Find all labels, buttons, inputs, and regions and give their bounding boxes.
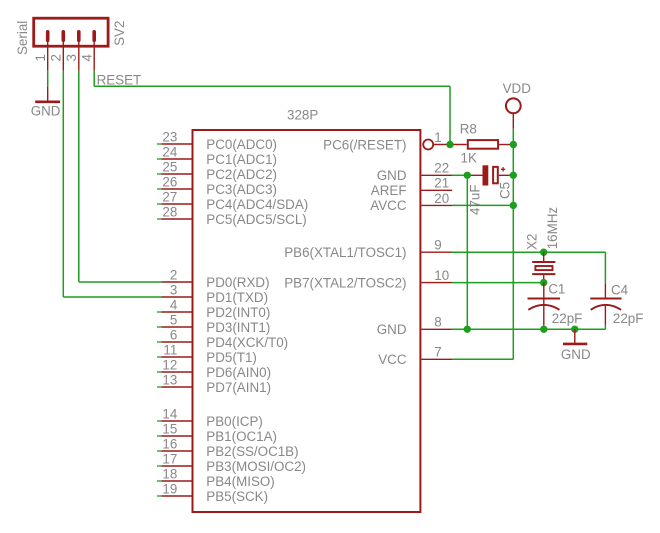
wire net SV2 pin2 to PD1(TXD): vertical xyxy=(62,71,64,297)
SV2 pin 2 contact xyxy=(61,32,65,40)
U1 pin number 6 xyxy=(170,327,177,342)
junction C1 bottom xyxy=(540,326,547,333)
U1 pin number 24 xyxy=(162,144,177,159)
U1 pin label PC3(ADC3) xyxy=(206,182,277,197)
wire net SV2 pin3 to PD0(RXD): horizontal xyxy=(79,281,162,283)
RESET net label xyxy=(97,72,142,87)
U1 pin label PB1(OC1A) xyxy=(206,429,277,444)
U1 pin number 21 xyxy=(434,176,449,191)
svg-text:4: 4 xyxy=(79,54,94,62)
C4 value 22pF xyxy=(613,311,644,326)
U1 pin 27 stub (PC4(ADC4/SDA)) xyxy=(157,203,192,205)
U1 pin number 22 xyxy=(434,161,449,176)
svg-text:22pF: 22pF xyxy=(613,311,644,326)
U1 pin label PD6(AIN0) xyxy=(206,365,271,380)
svg-text:AREF: AREF xyxy=(371,183,407,198)
ground symbol below SV2 (pin stub) xyxy=(35,87,60,102)
U1 pin 21 stub (AREF) xyxy=(421,189,452,191)
svg-text:3: 3 xyxy=(64,54,79,61)
junction XTAL1 node xyxy=(540,249,547,256)
svg-text:AVCC: AVCC xyxy=(370,198,407,213)
U1 pin 2 stub (PD0(RXD)) xyxy=(161,281,191,283)
wire net SV2 pin2 to PD1(TXD): horizontal xyxy=(63,296,161,298)
C5 plus sign xyxy=(501,167,505,171)
U1 pin label PD1(TXD) xyxy=(206,290,268,305)
U1 pin number 20 xyxy=(434,191,449,206)
U1 pin label AREF xyxy=(371,183,407,198)
U1 pin label PB6(XTAL1/TOSC1) xyxy=(284,245,406,260)
svg-text:328P: 328P xyxy=(287,108,318,123)
R8 value 1K xyxy=(461,151,477,166)
svg-text:6: 6 xyxy=(170,327,177,342)
SV2 pin 3 stub xyxy=(78,40,80,71)
svg-text:1K: 1K xyxy=(461,151,477,166)
svg-text:VDD: VDD xyxy=(503,81,532,96)
IC U1 name 328P xyxy=(287,108,318,123)
U1 pin number 23 xyxy=(162,129,177,144)
svg-text:16: 16 xyxy=(162,436,177,451)
svg-text:18: 18 xyxy=(162,466,177,481)
U1 pin label PD2(INT0) xyxy=(206,305,270,320)
svg-text:GND: GND xyxy=(377,322,407,337)
U1 pin 5 stub (PD3(INT1)) xyxy=(157,326,192,328)
U1 pin label PB0(ICP) xyxy=(206,414,263,429)
svg-text:2: 2 xyxy=(170,267,177,282)
svg-text:PB4(MISO): PB4(MISO) xyxy=(206,474,274,489)
U1 pin number 11 xyxy=(163,342,177,357)
svg-text:22pF: 22pF xyxy=(552,311,583,326)
svg-text:23: 23 xyxy=(162,129,177,144)
wire RESET net horizontal xyxy=(94,85,450,87)
U1 pin number 7 xyxy=(434,345,441,360)
svg-text:13: 13 xyxy=(162,372,177,387)
U1 pin number 26 xyxy=(162,174,177,189)
wire from U1 pin 7 xyxy=(452,358,513,360)
U1 pin number 25 xyxy=(162,159,177,174)
U1 pin 8 stub (GND) xyxy=(421,328,452,330)
svg-text:GND: GND xyxy=(31,104,61,119)
svg-text:25: 25 xyxy=(162,159,177,174)
U1 pin label PC5(ADC5/SCL) xyxy=(206,212,306,227)
U1 pin 28 stub (PC5(ADC5/SCL)) xyxy=(157,218,192,220)
svg-text:17: 17 xyxy=(162,451,177,466)
X2 value 16MHz xyxy=(545,207,560,250)
GND label (left) xyxy=(31,104,61,119)
U1 pin 24 stub (PC1(ADC1)) xyxy=(157,158,192,160)
wire C4 branch vertical top xyxy=(604,252,606,284)
U1 pin label GND xyxy=(377,168,407,183)
SV2 pin 1 contact xyxy=(46,32,50,40)
svg-text:PD5(T1): PD5(T1) xyxy=(206,350,257,365)
U1 pin 23 stub (PC0(ADC0)) xyxy=(157,143,192,145)
SV2 name xyxy=(112,21,127,46)
svg-text:12: 12 xyxy=(162,357,177,372)
U1 pin label PB7(XTAL2/TOSC2) xyxy=(284,275,406,290)
wire VDD net vertical (C5 to AVCC) xyxy=(512,175,514,205)
U1 pin 10 stub (PB7(XTAL2/TOSC2)) xyxy=(421,282,452,284)
U1 pin number 14 xyxy=(162,406,177,421)
svg-text:1: 1 xyxy=(33,54,48,61)
svg-text:PC4(ADC4/SDA): PC4(ADC4/SDA) xyxy=(206,197,308,212)
SV2 pin 3 contact xyxy=(77,32,81,40)
U1 pin label PC2(ADC2) xyxy=(206,167,277,182)
svg-text:7: 7 xyxy=(434,345,441,360)
svg-text:28: 28 xyxy=(162,204,177,219)
junction GND/C5 left xyxy=(464,172,471,179)
capacitor C4 xyxy=(590,284,621,325)
U1 pin 15 stub (PB1(OC1A)) xyxy=(157,435,192,437)
svg-text:PB5(SCK): PB5(SCK) xyxy=(206,489,268,504)
junction AVCC/VDD xyxy=(510,202,517,209)
U1 pin 7 stub (VCC) xyxy=(421,358,452,360)
U1 pin label PC1(ADC1) xyxy=(206,152,277,167)
svg-text:8: 8 xyxy=(434,315,441,330)
svg-text:PB2(SS/OC1B): PB2(SS/OC1B) xyxy=(206,444,298,459)
junction pin1/R8/RESET xyxy=(446,141,453,148)
svg-text:5: 5 xyxy=(170,312,177,327)
U1 pin label PC0(ADC0) xyxy=(206,137,277,152)
U1 pin label PD7(AIN1) xyxy=(206,380,271,395)
U1 pin 20 stub (AVCC) xyxy=(421,204,452,206)
wire VDD net horizontal to pin 7 xyxy=(452,358,513,360)
svg-text:10: 10 xyxy=(434,268,449,283)
IC U1 328P body xyxy=(193,130,421,512)
svg-text:1: 1 xyxy=(434,130,441,145)
svg-text:PC3(ADC3): PC3(ADC3) xyxy=(206,182,277,197)
svg-text:PC6(/RESET): PC6(/RESET) xyxy=(323,137,406,152)
svg-text:PC0(ADC0): PC0(ADC0) xyxy=(206,137,277,152)
wire GND net from SV2 pin 1 xyxy=(47,71,49,87)
SV2 pin 4 contact xyxy=(92,32,96,40)
wire VDD net vertical (R8 to C5) xyxy=(512,145,514,176)
R8 name xyxy=(460,122,477,137)
U1 pin number 10 xyxy=(434,268,449,283)
svg-text:PD2(INT0): PD2(INT0) xyxy=(206,305,270,320)
svg-text:19: 19 xyxy=(162,481,177,496)
U1 pin label PC6(/RESET) xyxy=(323,137,406,152)
U1 pin label PC4(ADC4/SDA) xyxy=(206,197,308,212)
SV2 pin number 2 xyxy=(48,54,63,61)
svg-text:2: 2 xyxy=(48,54,63,61)
C5 value 47uF xyxy=(467,184,482,215)
U1 pin number 28 xyxy=(162,204,177,219)
U1 pin 12 stub (PD6(AIN0)) xyxy=(157,371,192,373)
U1 pin label PD4(XCK/T0) xyxy=(206,335,288,350)
U1 pin number 27 xyxy=(162,189,177,204)
svg-text:24: 24 xyxy=(162,144,177,159)
svg-text:GND: GND xyxy=(561,347,591,362)
wire RESET net vertical to pin 1 xyxy=(449,86,451,144)
U1 pin number 9 xyxy=(434,238,441,253)
svg-text:PD6(AIN0): PD6(AIN0) xyxy=(206,365,271,380)
svg-text:16MHz: 16MHz xyxy=(545,207,560,250)
SV2 pin number 1 xyxy=(33,54,48,61)
svg-text:PB1(OC1A): PB1(OC1A) xyxy=(206,429,277,444)
svg-text:PD1(TXD): PD1(TXD) xyxy=(206,290,268,305)
svg-text:PD4(XCK/T0): PD4(XCK/T0) xyxy=(206,335,288,350)
U1 pin number 2 xyxy=(170,267,177,282)
wire C4 bottom vertical xyxy=(604,325,606,330)
svg-text:47uF: 47uF xyxy=(467,184,482,215)
svg-text:PC2(ADC2): PC2(ADC2) xyxy=(206,167,277,182)
C5 name xyxy=(498,182,513,199)
SV2 pin 2 stub xyxy=(62,40,64,71)
SV2 pin number 4 xyxy=(79,54,94,62)
U1 pin number 3 xyxy=(170,282,177,297)
svg-text:PB3(MOSI/OC2): PB3(MOSI/OC2) xyxy=(206,459,306,474)
svg-text:GND: GND xyxy=(377,168,407,183)
U1 pin 22 stub (GND) xyxy=(421,174,452,176)
wire GND net vertical (C5 to pin8) xyxy=(466,175,468,329)
svg-text:PC5(ADC5/SCL): PC5(ADC5/SCL) xyxy=(206,212,306,227)
GND label (bottom right) xyxy=(561,347,591,362)
wire from U1 pin 10 xyxy=(452,282,544,284)
U1 pin 19 stub (PB5(SCK)) xyxy=(157,495,192,497)
svg-text:PD0(RXD): PD0(RXD) xyxy=(206,275,269,290)
capacitor C1 xyxy=(528,283,561,325)
U1 pin 16 stub (PB2(SS/OC1B)) xyxy=(157,450,192,452)
C1 name xyxy=(548,282,565,297)
U1 pin 25 stub (PC2(ADC2)) xyxy=(157,173,192,175)
U1 pin number 15 xyxy=(162,421,177,436)
U1 pin 17 stub (PB3(MOSI/OC2)) xyxy=(157,465,192,467)
wire net SV2 pin3 to PD0(RXD): vertical xyxy=(78,71,80,282)
SV2 pin 4 stub xyxy=(93,40,95,71)
svg-text:9: 9 xyxy=(434,238,441,253)
U1 pin label PB3(MOSI/OC2) xyxy=(206,459,306,474)
svg-text:3: 3 xyxy=(170,282,177,297)
svg-text:C1: C1 xyxy=(548,282,565,297)
svg-text:14: 14 xyxy=(162,406,177,421)
U1 pin 3 stub (PD1(TXD)) xyxy=(161,296,191,298)
svg-text:Serial: Serial xyxy=(15,21,30,55)
U1 pin label PD3(INT1) xyxy=(206,320,270,335)
resistor R8 body xyxy=(468,140,498,149)
U1 pin label PB5(SCK) xyxy=(206,489,268,504)
junction XTAL2 node xyxy=(540,279,547,286)
U1 pin 18 stub (PB4(MISO)) xyxy=(157,480,192,482)
U1 pin number 19 xyxy=(162,481,177,496)
svg-text:PC1(ADC1): PC1(ADC1) xyxy=(206,152,277,167)
SV2 value Serial xyxy=(15,21,30,55)
wire C1 bottom to GND wire xyxy=(543,325,545,329)
U1 pin number 1 xyxy=(434,130,441,145)
U1 pin 14 stub (PB0(ICP)) xyxy=(157,420,192,422)
U1 pin label GND xyxy=(377,322,407,337)
U1 pin label PB2(SS/OC1B) xyxy=(206,444,298,459)
U1 pin number 4 xyxy=(170,297,178,312)
SV2 pin 1 stub xyxy=(47,40,49,71)
svg-text:VCC: VCC xyxy=(378,352,407,367)
svg-text:PB0(ICP): PB0(ICP) xyxy=(206,414,263,429)
junction R8/VDD xyxy=(510,141,517,148)
U1 pin label PD5(T1) xyxy=(206,350,257,365)
supply symbol VDD xyxy=(506,98,521,128)
svg-text:RESET: RESET xyxy=(97,72,142,87)
X2 name xyxy=(525,234,540,250)
svg-text:PD3(INT1): PD3(INT1) xyxy=(206,320,270,335)
U1 pin 13 stub (PD7(AIN1)) xyxy=(157,386,192,388)
svg-text:22: 22 xyxy=(434,161,449,176)
U1 pin number 12 xyxy=(162,357,177,372)
U1 pin 11 stub (PD5(T1)) xyxy=(157,356,192,358)
svg-text:11: 11 xyxy=(163,342,177,357)
U1 pin 9 stub (PB6(XTAL1/TOSC1)) xyxy=(421,251,452,253)
wire from U1 pin 22 xyxy=(452,174,467,176)
svg-text:X2: X2 xyxy=(525,234,540,250)
SV2 pin number 3 xyxy=(64,54,79,61)
wire XTAL1 net to C4 branch xyxy=(544,251,606,253)
U1 pin label VCC xyxy=(378,352,407,367)
U1 pin 4 stub (PD2(INT0)) xyxy=(157,311,192,313)
svg-text:PB6(XTAL1/TOSC1): PB6(XTAL1/TOSC1) xyxy=(284,245,406,260)
C1 value 22pF xyxy=(552,311,583,326)
capacitor C5 plates xyxy=(483,165,498,185)
capacitor C5 leads xyxy=(467,174,513,176)
svg-text:PD7(AIN1): PD7(AIN1) xyxy=(206,380,271,395)
svg-text:21: 21 xyxy=(434,176,449,191)
wire from U1 pin 9 xyxy=(452,251,544,253)
svg-text:C5: C5 xyxy=(498,182,513,199)
svg-text:PB7(XTAL2/TOSC2): PB7(XTAL2/TOSC2) xyxy=(284,275,406,290)
U1 pin number 8 xyxy=(434,315,441,330)
U1 pin 6 stub (PD4(XCK/T0)) xyxy=(157,341,192,343)
U1 pin number 16 xyxy=(162,436,177,451)
ground symbol (bottom right) xyxy=(563,329,587,344)
U1 pin 1 stub (PC6(/RESET)) xyxy=(423,140,450,150)
wire from U1 pin 8 xyxy=(452,328,467,330)
C4 name xyxy=(611,282,629,297)
crystal X2 xyxy=(532,252,555,282)
svg-text:20: 20 xyxy=(434,191,449,206)
U1 pin number 5 xyxy=(170,312,177,327)
wire RESET net from SV2 pin 4 down xyxy=(93,71,95,87)
wire GND net horizontal (pin 8 row) xyxy=(451,328,605,330)
svg-text:15: 15 xyxy=(162,421,177,436)
U1 pin label AVCC xyxy=(370,198,407,213)
U1 pin number 18 xyxy=(162,466,177,481)
svg-text:27: 27 xyxy=(162,189,177,204)
U1 pin label PD0(RXD) xyxy=(206,275,269,290)
VDD label xyxy=(503,81,532,96)
svg-text:26: 26 xyxy=(162,174,177,189)
U1 pin 26 stub (PC3(ADC3)) xyxy=(157,188,192,190)
connector SV2 body xyxy=(34,18,108,46)
U1 pin number 17 xyxy=(162,451,177,466)
junction GND symbol tap xyxy=(571,326,578,333)
junction GND vertical/pin8 xyxy=(464,326,471,333)
resistor R8 leads xyxy=(450,144,513,146)
wire VDD net vertical (top) xyxy=(512,129,514,145)
svg-text:4: 4 xyxy=(170,297,178,312)
svg-text:R8: R8 xyxy=(460,122,477,137)
U1 pin number 13 xyxy=(162,372,177,387)
wire VDD net vertical (AVCC to VCC) xyxy=(512,205,514,359)
junction C5 right/VDD xyxy=(510,172,517,179)
wire from U1 pin 20 xyxy=(452,204,513,206)
svg-text:C4: C4 xyxy=(611,282,629,297)
svg-text:SV2: SV2 xyxy=(112,21,127,46)
U1 pin label PB4(MISO) xyxy=(206,474,274,489)
